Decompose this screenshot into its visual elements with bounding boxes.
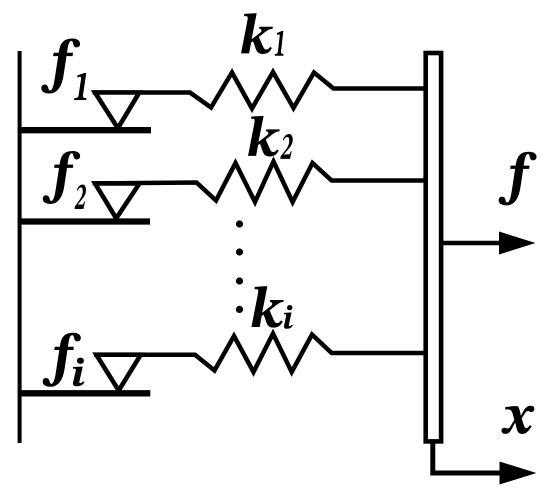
label x displacement — [501, 406, 534, 434]
triangle support row i — [96, 355, 141, 391]
ellipsis dot 1 — [236, 220, 243, 227]
triangle support row 1 — [95, 93, 139, 129]
support line row i — [18, 390, 151, 396]
triangle support row 2 — [95, 183, 140, 218]
support line row 2 — [18, 218, 150, 224]
label f1 letter f — [41, 39, 80, 94]
label f1 subscript 1 — [74, 73, 86, 100]
ellipsis dot 4 — [236, 306, 243, 313]
displacement arrow x head — [500, 462, 537, 485]
ellipsis dot 3 — [236, 277, 243, 284]
label f2 letter f — [43, 151, 80, 204]
label ki subscript i — [284, 305, 293, 329]
displacement arrow x stub and shaft — [433, 442, 502, 474]
label f2 subscript 2 — [75, 185, 87, 209]
label fi subscript i — [73, 358, 85, 387]
spring ki wire and zigzag — [96, 334, 424, 372]
label f force — [499, 152, 537, 206]
label k2 subscript 2 — [280, 134, 292, 159]
label k1 subscript 1 — [275, 31, 284, 56]
label fi letter f — [43, 333, 81, 387]
spring k1 wire and zigzag — [95, 72, 424, 109]
label k1 letter k — [241, 13, 273, 54]
ellipsis dot 2 — [236, 248, 243, 255]
force arrow f shaft — [442, 241, 502, 245]
spring k2 wire and zigzag — [95, 162, 424, 203]
force arrow f head — [499, 232, 536, 255]
label k2 letter k — [248, 116, 280, 156]
wall (left vertical line) — [18, 51, 22, 443]
rigid bar — [426, 53, 441, 441]
label ki letter k — [251, 286, 283, 327]
support line row 1 — [18, 127, 151, 133]
